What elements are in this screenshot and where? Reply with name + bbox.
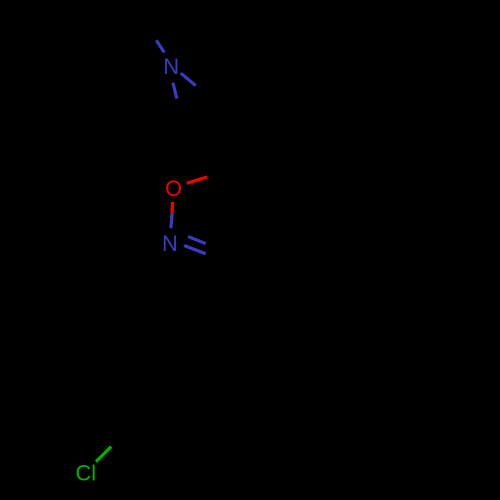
wire N3=C3 main line (blue half) — [184, 246, 206, 254]
svg-text:N: N — [163, 54, 179, 79]
wire N1-C2 (blue half-bond down) — [173, 83, 177, 99]
wire O-C5 (red half-bond up-right) — [187, 177, 208, 183]
wire N1-CH3 (blue half-bond to methyl) — [156, 40, 164, 52]
wire O-N3 red half — [171, 202, 175, 213]
wire Cl-C (green half-bond up-right) — [96, 447, 111, 462]
svg-text:O: O — [165, 176, 182, 201]
wire N3=C3 inner line (blue half) — [188, 237, 206, 244]
wire O-N3 blue half — [171, 213, 172, 228]
wire N1-C6 (blue half-bond down-right) — [181, 73, 196, 85]
svg-text:Cl: Cl — [76, 461, 97, 486]
svg-text:N: N — [162, 231, 178, 256]
